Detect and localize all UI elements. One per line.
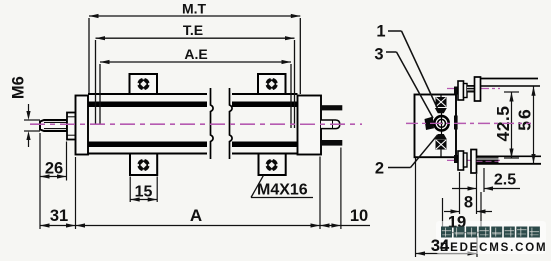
- connector stub bottom: [440, 150, 442, 158]
- dimension M.T: [89, 16, 300, 94]
- svg-text:DEDECMS.COM: DEDECMS.COM: [440, 242, 547, 254]
- mounting tab bottom-right: [259, 154, 286, 176]
- bottom bracket washer: [464, 153, 468, 167]
- dimension 15: [130, 177, 157, 203]
- dimension 10: [340, 148, 342, 230]
- dimension 26: [40, 133, 67, 229]
- svg-text:M4X16: M4X16: [257, 182, 308, 199]
- svg-text:A: A: [190, 206, 202, 225]
- hub outer circle: [434, 116, 448, 130]
- dimension 34: [416, 158, 478, 257]
- dimension 2.5: [452, 168, 520, 192]
- top bracket screw head: [458, 81, 464, 100]
- mounting tab top-left: [130, 74, 158, 94]
- svg-text:26: 26: [45, 160, 63, 178]
- label M4X16 with leader: [251, 197, 313, 199]
- terminal 1 block top: [436, 97, 447, 107]
- dimension T.E: [96, 38, 295, 128]
- centerline main axis: [30, 123, 362, 125]
- centerline end view axis: [406, 122, 531, 124]
- centerline overlay main: [30, 123, 362, 125]
- right end cap: [298, 96, 322, 155]
- body bottom rail band left: [88, 142, 207, 148]
- mounting tab top-right: [258, 74, 286, 94]
- right bottom tab bar: [321, 140, 342, 146]
- break line left: [211, 88, 214, 159]
- centerline overlay end view: [406, 122, 531, 124]
- svg-text:15: 15: [135, 184, 153, 201]
- bottom shared dimension line: [40, 225, 370, 227]
- right top tab bar: [321, 105, 342, 110]
- svg-text:3: 3: [374, 46, 383, 64]
- hub inner circle: [438, 119, 446, 127]
- svg-text:T.E: T.E: [183, 22, 203, 38]
- collar: [67, 113, 76, 140]
- bottom bracket foot on plate: [454, 155, 462, 163]
- break line right: [230, 88, 233, 159]
- terminal 2 block bottom: [436, 140, 447, 150]
- terminal bottom dome: [435, 134, 447, 139]
- top bracket screw shank: [467, 85, 475, 93]
- centerline top bracket screw: [447, 88, 500, 90]
- bottom bracket screw head: [458, 151, 464, 170]
- body left segment outline: [88, 93, 207, 95]
- dimension A: [319, 157, 321, 230]
- screw top-right: [265, 77, 279, 91]
- svg-text:8: 8: [464, 194, 473, 212]
- connector stub top: [440, 95, 442, 98]
- top bracket arm: [481, 78, 539, 80]
- svg-text:56: 56: [515, 107, 535, 130]
- top bracket plate: [475, 77, 481, 101]
- bottom bracket arm: [477, 155, 542, 157]
- shaft boss left of hub: [425, 117, 435, 130]
- svg-text:2.5: 2.5: [494, 172, 516, 189]
- dimension M6: [24, 104, 40, 147]
- dimension 31: [75, 157, 77, 229]
- body top rail band left: [88, 102, 207, 108]
- shaft M6 threaded rod: [40, 120, 67, 131]
- dimension 56: [533, 86, 535, 163]
- svg-text:M6: M6: [9, 76, 27, 99]
- bottom bracket plate: [471, 150, 477, 174]
- terminal top dome: [435, 108, 447, 113]
- screw bottom-left: [137, 158, 151, 172]
- top bracket foot on plate: [454, 87, 462, 95]
- svg-text:A.E: A.E: [184, 46, 207, 62]
- svg-text:M.T: M.T: [182, 1, 207, 17]
- svg-text:31: 31: [50, 207, 68, 225]
- end view plate: [415, 95, 457, 158]
- bottom bracket screw shank pointing right: [477, 157, 499, 163]
- center vertical line through hub: [441, 113, 443, 134]
- left end cap: [76, 96, 89, 155]
- mounting tab bottom-left: [130, 154, 157, 176]
- svg-text:10: 10: [350, 207, 368, 225]
- screw bottom-right: [265, 158, 279, 172]
- centerline bottom bracket screw: [447, 159, 500, 161]
- body bottom rail band right: [232, 142, 298, 148]
- dimension 42.5: [504, 92, 519, 158]
- slot bar right edge: [454, 116, 458, 130]
- svg-text:2: 2: [375, 160, 384, 178]
- shaft thread lines: [44, 121, 67, 123]
- dimension 8: [444, 172, 492, 214]
- watermark: [436, 221, 546, 254]
- top bracket washer: [464, 84, 468, 98]
- dimension A.E: [100, 62, 291, 128]
- wiper pin: [321, 120, 340, 129]
- svg-text:1: 1: [376, 23, 385, 41]
- body top rail band right: [232, 102, 298, 108]
- screw top-left: [137, 77, 151, 91]
- dimension 19: [443, 192, 482, 235]
- body right segment outline: [232, 93, 298, 95]
